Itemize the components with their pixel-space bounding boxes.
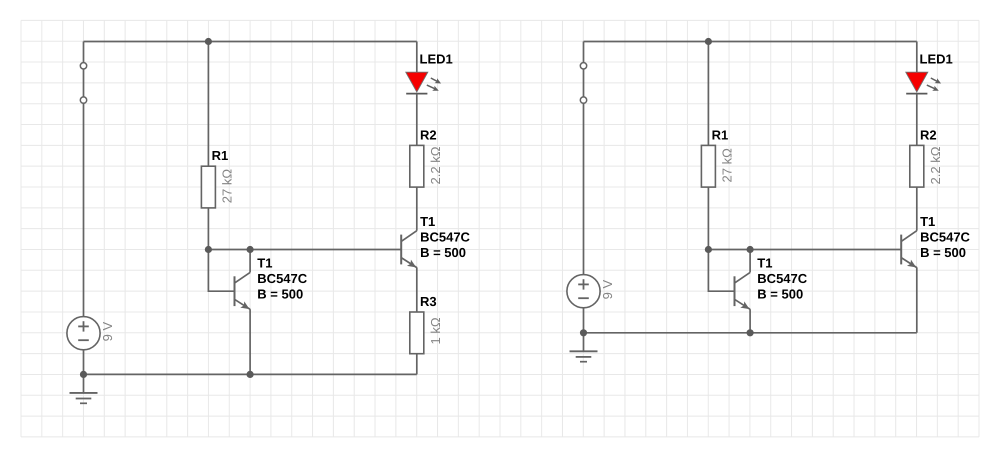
svg-text:27 kΩ: 27 kΩ	[720, 148, 735, 183]
svg-text:R1: R1	[212, 148, 229, 163]
svg-text:BC547C: BC547C	[757, 271, 807, 286]
svg-text:2.2 kΩ: 2.2 kΩ	[928, 146, 943, 184]
svg-text:BC547C: BC547C	[920, 230, 970, 245]
svg-text:B = 500: B = 500	[420, 245, 466, 260]
svg-text:R3: R3	[420, 294, 437, 309]
svg-text:B = 500: B = 500	[757, 287, 803, 302]
svg-text:1 kΩ: 1 kΩ	[428, 317, 443, 344]
svg-text:LED1: LED1	[920, 52, 953, 67]
svg-text:B = 500: B = 500	[257, 287, 303, 302]
svg-text:T1: T1	[257, 255, 272, 270]
svg-text:9 V: 9 V	[100, 322, 115, 342]
svg-text:BC547C: BC547C	[420, 230, 470, 245]
svg-text:T1: T1	[920, 214, 935, 229]
svg-text:R2: R2	[420, 127, 437, 142]
svg-text:R1: R1	[712, 127, 729, 142]
svg-text:2.2 kΩ: 2.2 kΩ	[428, 146, 443, 184]
svg-text:R2: R2	[920, 127, 937, 142]
svg-text:BC547C: BC547C	[257, 271, 307, 286]
svg-text:T1: T1	[757, 255, 772, 270]
svg-text:T1: T1	[420, 214, 435, 229]
svg-text:9 V: 9 V	[600, 280, 615, 300]
svg-text:LED1: LED1	[420, 52, 453, 67]
svg-text:B = 500: B = 500	[920, 245, 966, 260]
svg-text:27 kΩ: 27 kΩ	[220, 169, 235, 204]
